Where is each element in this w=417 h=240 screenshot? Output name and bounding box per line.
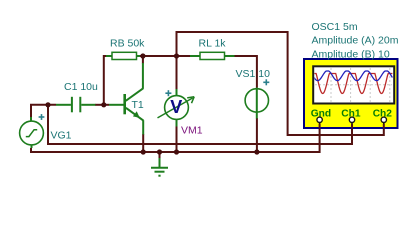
screen grid — [315, 68, 392, 102]
wire RB right to collector node — [139, 55, 177, 57]
svg-text:T1: T1 — [132, 99, 144, 111]
svg-text:RB 50k: RB 50k — [110, 37, 145, 49]
resistor RB — [106, 52, 140, 59]
voltmeter VM1 — [158, 89, 195, 127]
oscilloscope screen — [313, 66, 394, 103]
wire VM1 bottom — [176, 126, 178, 152]
junction ground on rail — [157, 149, 162, 154]
generator VG1 — [20, 117, 44, 148]
wire VS1 bottom — [256, 118, 258, 152]
junction collector node — [140, 53, 145, 58]
waveform blue (A) — [314, 71, 392, 81]
wire VM1 top — [176, 56, 178, 90]
wire node A to Ch1 line — [48, 105, 352, 144]
junction VG1 output node — [45, 102, 50, 107]
junction emitter on ground rail — [141, 149, 146, 154]
capacitor C1 — [56, 97, 95, 113]
wire RL right to VS1 top — [234, 56, 257, 88]
wire collector node to RL left — [177, 55, 191, 57]
junction collector/VM1/Ch2 node — [174, 53, 179, 58]
ground — [151, 158, 168, 176]
VS1 plus sign — [263, 79, 269, 85]
svg-text:Amplitude (B) 10: Amplitude (B) 10 — [312, 48, 390, 60]
osc terminal Gnd — [317, 117, 322, 128]
svg-text:Amplitude (A) 20m: Amplitude (A) 20m — [312, 35, 399, 47]
svg-text:VM1: VM1 — [181, 124, 203, 136]
svg-text:VS1 10: VS1 10 — [236, 68, 271, 80]
osc terminal labels — [311, 108, 393, 119]
wire C1 to base node — [95, 104, 109, 106]
svg-text:Ch1: Ch1 — [341, 108, 361, 119]
svg-text:RL 1k: RL 1k — [199, 37, 227, 49]
svg-text:OSC1 5m: OSC1 5m — [312, 21, 358, 33]
transistor T1 — [109, 63, 143, 135]
waveform red (B) — [314, 74, 392, 94]
wire collector stub — [142, 56, 144, 64]
svg-text:Gnd: Gnd — [311, 108, 331, 119]
junction base node — [101, 102, 106, 107]
wire VG1 top to base node — [31, 105, 56, 121]
VM1 plus sign — [165, 90, 171, 96]
wire ground rail — [31, 128, 320, 152]
wire collector node to osc Ch2 — [177, 32, 384, 135]
source VS1 — [245, 88, 268, 119]
osc terminal Ch1 — [349, 117, 354, 128]
VG1 plus sign — [39, 114, 45, 120]
junction VM1 on rail — [174, 149, 179, 154]
label OSC1 — [312, 21, 399, 61]
svg-text:V: V — [170, 97, 182, 117]
svg-text:VG1: VG1 — [51, 130, 72, 142]
wire emitter down — [142, 134, 144, 152]
oscilloscope OSC1 body — [304, 59, 398, 128]
osc terminal Ch2 — [381, 117, 386, 128]
resistor RL — [190, 52, 235, 59]
wire base node up to RB left — [104, 56, 106, 105]
wire ground stem red — [159, 152, 161, 159]
svg-text:Ch2: Ch2 — [373, 108, 393, 119]
svg-text:C1 10u: C1 10u — [64, 81, 98, 93]
junction VS1 on rail — [254, 149, 259, 154]
